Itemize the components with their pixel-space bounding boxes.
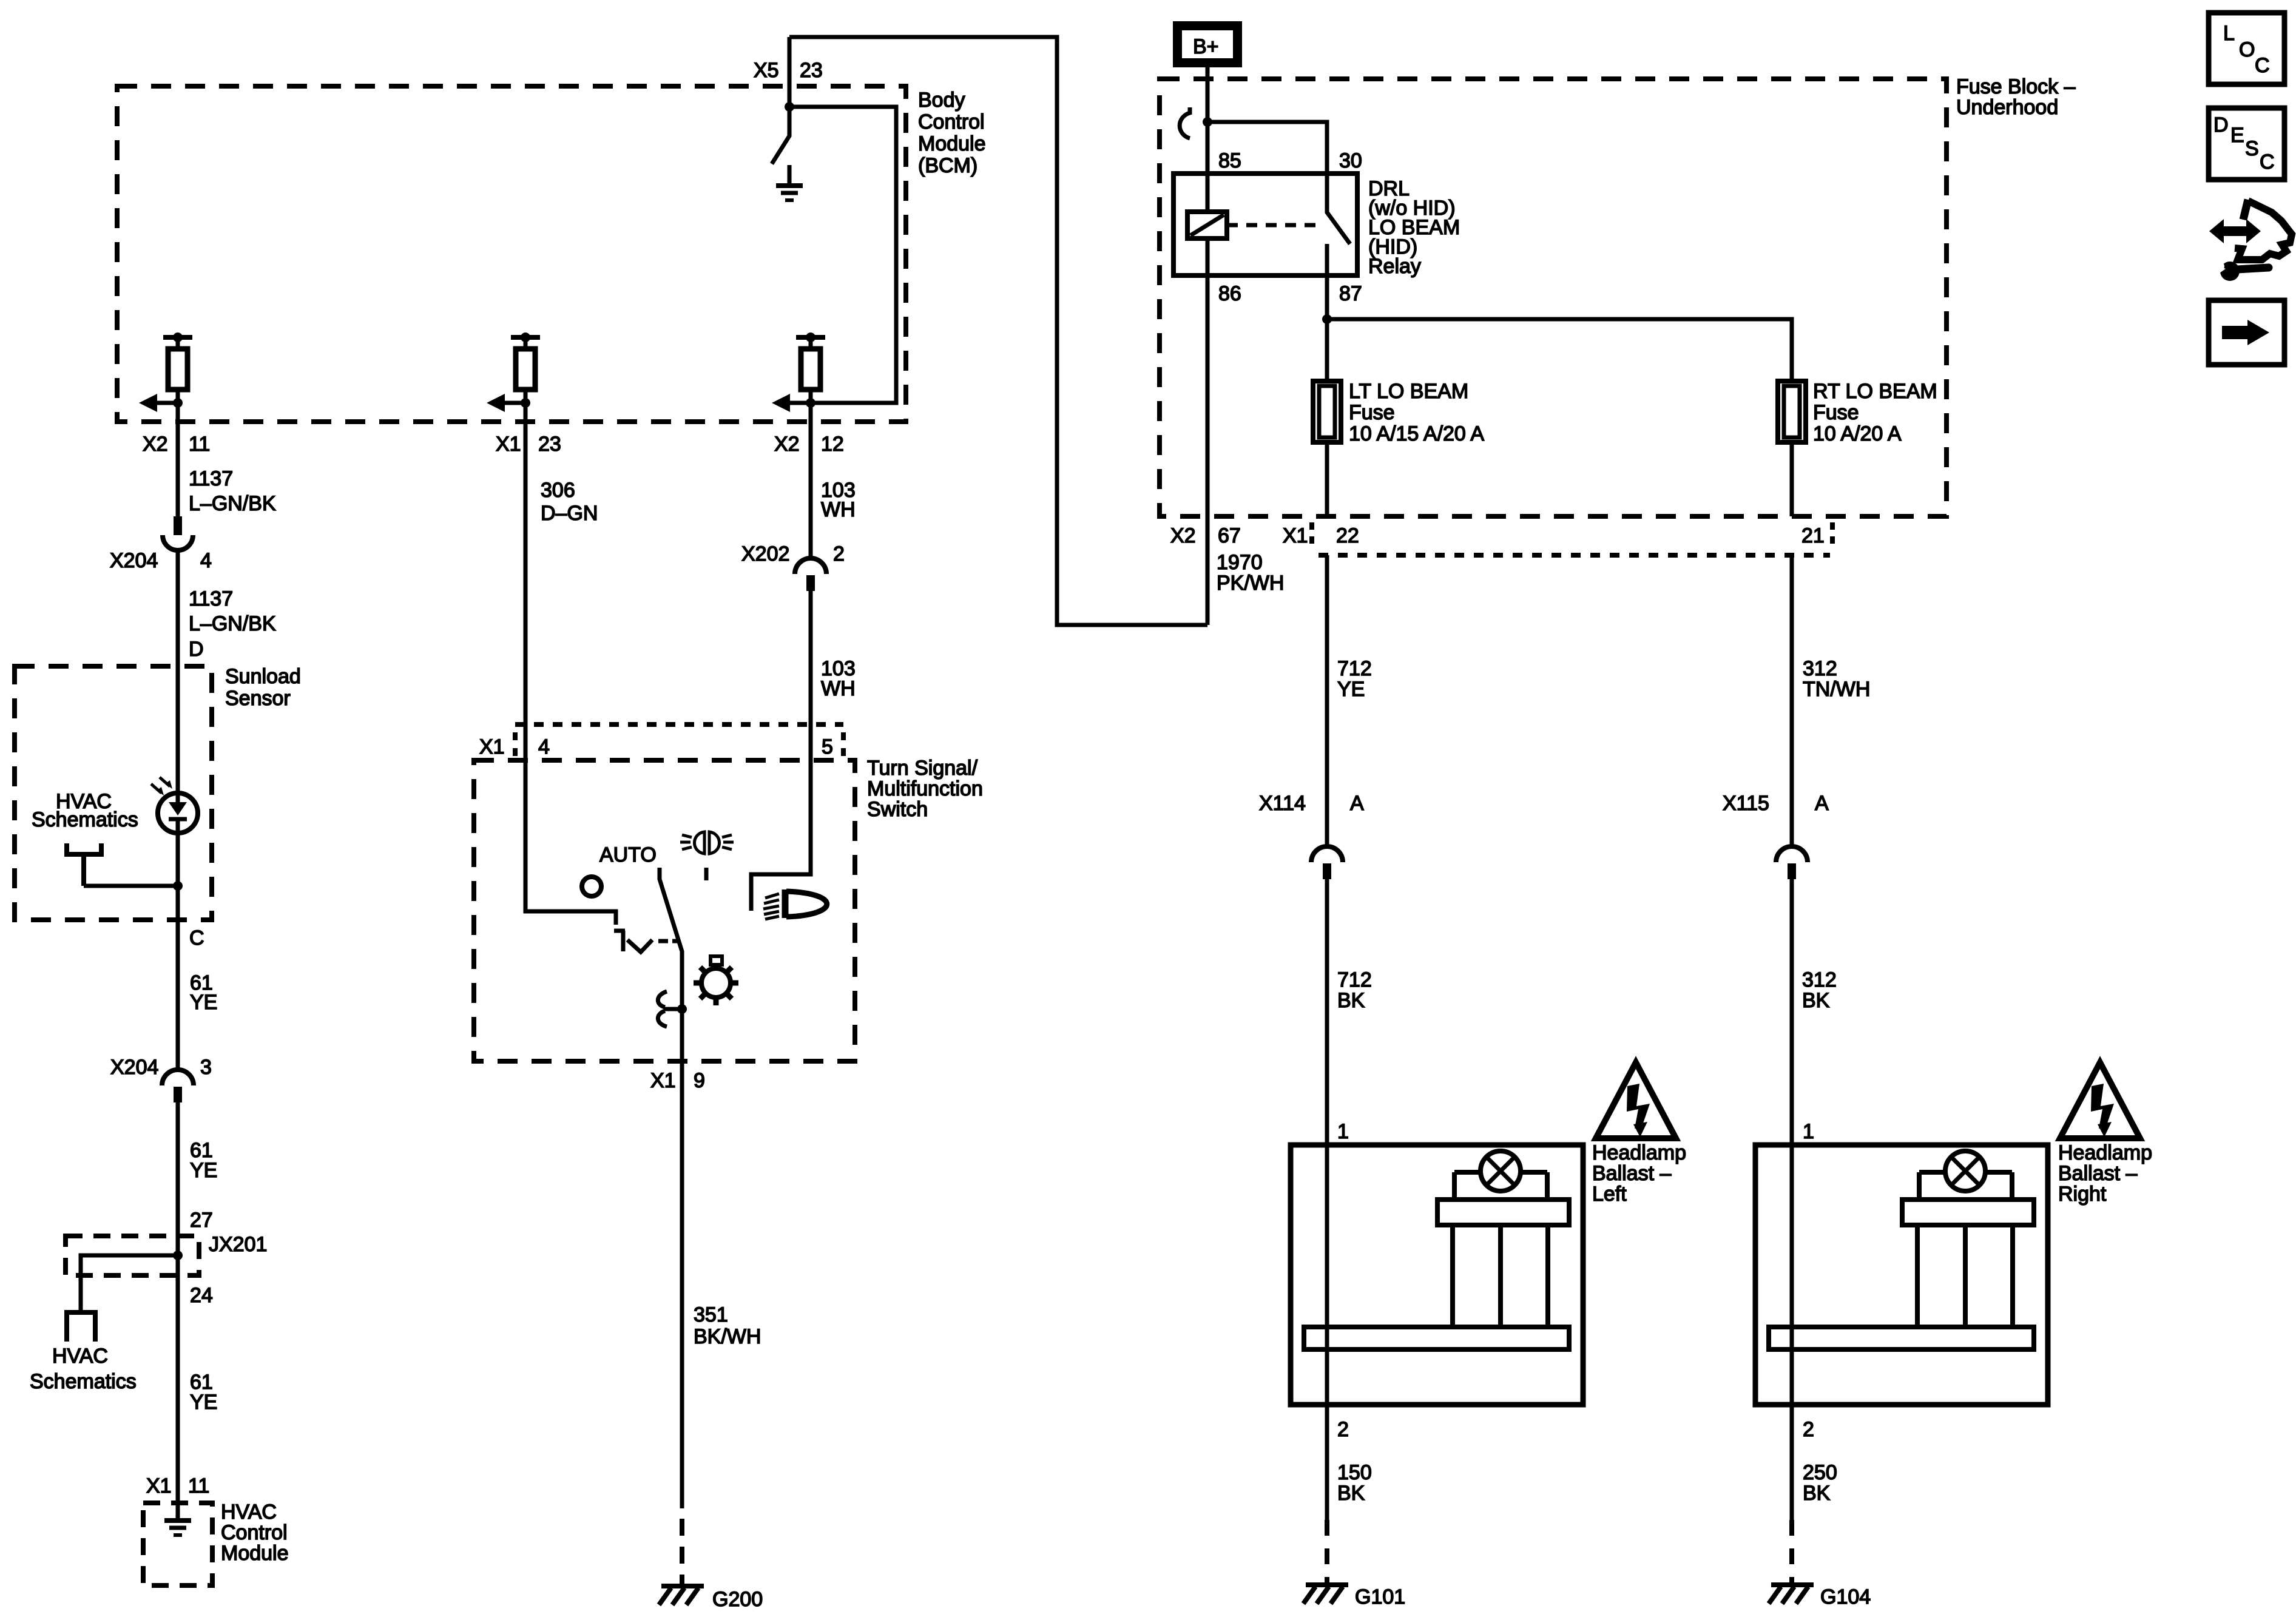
svg-text:L–GN/BK: L–GN/BK <box>189 492 276 515</box>
svg-text:WH: WH <box>821 677 856 700</box>
HVAC Control Module dashed box <box>143 1503 212 1585</box>
DESC icon <box>2209 108 2284 180</box>
svg-text:1137: 1137 <box>189 467 233 490</box>
svg-text:X204: X204 <box>110 549 158 572</box>
svg-text:250: 250 <box>1803 1461 1837 1484</box>
svg-text:RT LO BEAM: RT LO BEAM <box>1813 380 1937 403</box>
svg-text:9: 9 <box>694 1069 705 1092</box>
svg-text:4: 4 <box>200 549 212 572</box>
svg-text:BK: BK <box>1337 1482 1365 1505</box>
wire 1137 L-GN/BK lower <box>176 550 180 793</box>
svg-text:86: 86 <box>1218 282 1241 305</box>
LT LO BEAM fuse <box>1313 381 1341 442</box>
connector X202 pin 2 <box>795 558 826 591</box>
svg-text:Body: Body <box>918 89 965 112</box>
svg-text:(BCM): (BCM) <box>918 154 977 177</box>
svg-text:Switch: Switch <box>867 798 928 821</box>
BCM output pin X2-12 <box>772 333 825 412</box>
svg-text:Fuse: Fuse <box>1349 401 1395 424</box>
ground G104 <box>1769 1585 1814 1604</box>
svg-text:X2: X2 <box>774 433 800 456</box>
svg-text:G200: G200 <box>712 1588 763 1611</box>
svg-text:312: 312 <box>1803 657 1837 680</box>
wire 103 WH upper <box>809 403 813 559</box>
svg-text:D: D <box>189 638 204 661</box>
relay switch contact 30-87 <box>1327 174 1350 244</box>
svg-text:Sunload: Sunload <box>225 665 301 688</box>
node X5-23 junction <box>785 102 794 112</box>
svg-text:3: 3 <box>200 1056 212 1079</box>
svg-text:X2: X2 <box>1170 524 1196 547</box>
svg-text:Headlamp: Headlamp <box>1592 1141 1686 1164</box>
svg-text:Schematics: Schematics <box>32 808 138 831</box>
parking/head knob (gear) icon <box>701 968 731 998</box>
mechanical link at blade junction <box>677 1004 687 1014</box>
svg-text:27: 27 <box>190 1209 213 1232</box>
wire X2-67 1970 PK/WH <box>1206 516 1210 625</box>
svg-text:BK: BK <box>1802 989 1830 1012</box>
svg-text:24: 24 <box>190 1284 213 1307</box>
wire 306 D-GN <box>524 403 528 760</box>
warning triangle left <box>1596 1062 1676 1138</box>
wire 712 YE <box>1325 555 1329 846</box>
wire 351 BK/WH <box>680 1061 684 1508</box>
svg-text:X1: X1 <box>146 1474 172 1497</box>
wire 86 down to X2-67 <box>1206 275 1210 625</box>
svg-text:JX201: JX201 <box>209 1233 267 1256</box>
svg-text:Left: Left <box>1592 1183 1627 1206</box>
svg-text:X202: X202 <box>741 542 789 565</box>
svg-text:PK/WH: PK/WH <box>1217 572 1284 595</box>
svg-text:TN/WH: TN/WH <box>1803 678 1870 701</box>
BCM dashed box <box>117 86 906 422</box>
wire BCM internal to pin X2-12 <box>789 107 896 403</box>
svg-text:X1: X1 <box>650 1069 676 1092</box>
svg-text:L: L <box>2223 22 2235 45</box>
svg-text:X2: X2 <box>143 433 168 456</box>
wire 103 WH lower <box>751 591 811 911</box>
Headlamp Ballast Left box <box>1291 1144 1583 1406</box>
svg-text:4: 4 <box>538 735 550 758</box>
svg-text:306: 306 <box>541 479 575 502</box>
wire 312 TN/WH <box>1790 555 1794 846</box>
svg-text:G101: G101 <box>1355 1585 1405 1609</box>
svg-text:C: C <box>2260 150 2275 174</box>
dashed drop to G200 <box>680 1519 684 1584</box>
fuse output wires to bottom edge <box>1325 442 1329 516</box>
wire 312 BK <box>1790 878 1794 1145</box>
svg-text:1137: 1137 <box>189 587 233 610</box>
headlamp flash icon <box>695 832 705 854</box>
svg-text:2: 2 <box>833 542 845 565</box>
svg-text:12: 12 <box>821 433 844 456</box>
svg-text:67: 67 <box>1218 524 1241 547</box>
fixed contact <box>614 931 625 951</box>
X1 connector dotted box under fuse block <box>1319 553 1830 558</box>
ground inside HVAC control module <box>164 1521 191 1535</box>
svg-text:87: 87 <box>1339 282 1362 305</box>
Fuse block dashed box <box>1160 79 1947 516</box>
svg-text:712: 712 <box>1337 968 1372 991</box>
svg-text:1970: 1970 <box>1217 551 1263 574</box>
svg-text:1: 1 <box>1803 1120 1814 1143</box>
svg-text:Fuse Block –: Fuse Block – <box>1956 75 2076 98</box>
svg-text:Control: Control <box>221 1521 288 1544</box>
svg-text:YE: YE <box>190 1159 217 1182</box>
HVAC schematics reference (lower fork) <box>64 1312 98 1342</box>
svg-text:X1: X1 <box>1283 524 1308 547</box>
svg-text:B+: B+ <box>1193 35 1219 58</box>
svg-text:D–GN: D–GN <box>541 502 598 525</box>
ground G200 <box>659 1586 704 1605</box>
ground (BCM internal) <box>788 165 792 184</box>
connector X1 dotted line (switch) <box>515 722 843 727</box>
svg-text:5: 5 <box>822 735 833 758</box>
warning triangle right <box>2060 1062 2140 1138</box>
svg-text:Module: Module <box>918 132 986 155</box>
svg-text:22: 22 <box>1336 524 1359 547</box>
vehicle/wrench icon <box>2209 200 2292 281</box>
B+ terminal <box>1173 21 1242 67</box>
wire to fixed contact <box>525 760 616 925</box>
svg-text:WH: WH <box>821 498 856 521</box>
wire 1137 L-GN/BK upper <box>176 403 180 516</box>
svg-text:O: O <box>2239 38 2255 61</box>
svg-text:Turn Signal/: Turn Signal/ <box>867 757 978 780</box>
DRL relay box <box>1173 174 1357 275</box>
Turn Signal / Multifunction Switch dashed box <box>474 760 855 1061</box>
svg-text:E: E <box>2230 124 2244 147</box>
svg-text:Control: Control <box>918 110 985 133</box>
svg-text:30: 30 <box>1339 149 1362 172</box>
svg-text:23: 23 <box>800 59 823 82</box>
Sunload Sensor dashed box <box>15 666 212 920</box>
svg-text:A: A <box>1350 792 1364 815</box>
relay coil <box>1206 174 1210 275</box>
svg-text:Schematics: Schematics <box>30 1370 137 1393</box>
svg-text:C: C <box>2255 54 2270 77</box>
svg-text:Underhood: Underhood <box>1956 96 2058 119</box>
connector X204 pin 4 <box>163 516 193 550</box>
svg-text:Right: Right <box>2058 1183 2107 1206</box>
svg-text:G104: G104 <box>1820 1585 1871 1609</box>
svg-text:BK/WH: BK/WH <box>694 1325 761 1348</box>
svg-text:BK: BK <box>1337 989 1365 1012</box>
svg-text:X1: X1 <box>479 735 505 758</box>
svg-text:Ballast –: Ballast – <box>1592 1162 1671 1185</box>
ground G101 <box>1303 1585 1348 1604</box>
svg-text:10 A/15 A/20 A: 10 A/15 A/20 A <box>1349 422 1484 445</box>
Headlamp Ballast Right box <box>1755 1144 2048 1406</box>
low beam icon <box>782 890 789 918</box>
svg-text:X5: X5 <box>754 59 779 82</box>
wire 87 to fuses <box>1325 275 1329 381</box>
next-page arrow icon <box>2209 300 2284 365</box>
svg-text:YE: YE <box>190 1391 217 1414</box>
B+ feed wire <box>1206 67 1210 174</box>
svg-text:2: 2 <box>1803 1418 1814 1441</box>
svg-text:YE: YE <box>1337 678 1365 701</box>
svg-text:Fuse: Fuse <box>1813 401 1859 424</box>
light arrows <box>151 784 161 793</box>
svg-text:X114: X114 <box>1259 792 1306 815</box>
svg-text:X115: X115 <box>1723 792 1769 815</box>
svg-text:712: 712 <box>1337 657 1372 680</box>
relay actuation dashed link <box>1227 223 1323 228</box>
svg-text:YE: YE <box>190 991 217 1014</box>
BCM output pin X1-23 <box>487 333 540 412</box>
svg-text:AUTO: AUTO <box>599 843 657 866</box>
dashes to blade <box>658 939 678 944</box>
wire X5-23 to fuse block feed <box>789 37 1207 625</box>
svg-text:LT LO BEAM: LT LO BEAM <box>1349 380 1468 403</box>
svg-text:Ballast –: Ballast – <box>2058 1162 2137 1185</box>
svg-text:HVAC: HVAC <box>221 1501 277 1524</box>
svg-text:HVAC: HVAC <box>52 1345 108 1368</box>
svg-text:23: 23 <box>538 433 561 456</box>
svg-text:A: A <box>1815 792 1829 815</box>
svg-text:Module: Module <box>221 1542 289 1565</box>
svg-text:11: 11 <box>188 1474 209 1497</box>
svg-text:X1: X1 <box>496 433 521 456</box>
switch blade <box>660 868 682 1061</box>
wire below photodiode <box>176 833 180 1070</box>
svg-text:L–GN/BK: L–GN/BK <box>189 612 276 635</box>
svg-text:X204: X204 <box>110 1056 158 1079</box>
svg-text:21: 21 <box>1801 524 1825 547</box>
wire X5 pin drop <box>788 37 792 107</box>
svg-text:C: C <box>189 927 204 950</box>
svg-text:10 A/20 A: 10 A/20 A <box>1813 422 1902 445</box>
svg-text:85: 85 <box>1218 149 1241 172</box>
wire 61 YE lower <box>176 1102 180 1503</box>
connector X115 pin A <box>1776 846 1808 879</box>
svg-text:Sensor: Sensor <box>225 687 291 710</box>
LOC icon <box>2209 13 2284 84</box>
svg-text:351: 351 <box>694 1303 728 1326</box>
svg-text:2: 2 <box>1337 1418 1349 1441</box>
svg-text:Headlamp: Headlamp <box>2058 1141 2152 1164</box>
svg-text:1: 1 <box>1337 1120 1349 1143</box>
svg-text:312: 312 <box>1802 968 1837 991</box>
svg-text:150: 150 <box>1337 1461 1372 1484</box>
svg-text:Relay: Relay <box>1368 255 1421 278</box>
wire 712 BK <box>1325 878 1329 1145</box>
photodiode (sunload sensor) <box>158 793 198 833</box>
svg-text:BK: BK <box>1803 1482 1831 1505</box>
svg-text:Multifunction: Multifunction <box>867 777 983 800</box>
BCM output pin X2-11 <box>139 333 192 412</box>
battery feed hook <box>1180 107 1190 138</box>
svg-text:S: S <box>2245 137 2259 160</box>
RT LO BEAM fuse <box>1778 381 1806 442</box>
switch inside BCM <box>772 107 789 164</box>
connector X114 pin A <box>1311 846 1343 879</box>
connector X204 pin 3 <box>162 1070 194 1102</box>
svg-text:D: D <box>2213 113 2229 137</box>
svg-text:11: 11 <box>189 433 210 456</box>
